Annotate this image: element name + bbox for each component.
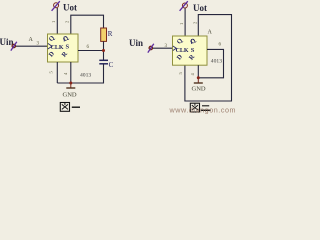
svg-text:C: C [109, 61, 114, 69]
wire: input to CLK pin 3 [153, 47, 173, 49]
wire: pin 1 (Q) up to output port [56, 8, 58, 34]
wire: cap bottom to ground rail [57, 64, 103, 83]
wire: pin 4 (R) down to rail [70, 62, 72, 83]
svg-text:A: A [29, 37, 34, 43]
svg-text:S: S [191, 47, 195, 54]
wire: pin 2 (Qbar) up and over to resistor [71, 15, 104, 34]
svg-text:Uin: Uin [129, 38, 143, 48]
ground (power port GND) [70, 83, 72, 88]
connector (input port circle+slash) [12, 44, 15, 47]
wire: pin 5 (D) down to rail [56, 62, 58, 83]
ground (power port GND) [197, 78, 199, 83]
wire: pin 6 (S) to ground rail [198, 49, 223, 77]
svg-text:GND: GND [63, 92, 77, 99]
svg-text:A: A [208, 30, 213, 36]
connector Uot output port (circle + slash) [182, 3, 187, 8]
node junction ground tap [69, 82, 72, 85]
svg-text:Uot: Uot [63, 3, 77, 13]
svg-text:GND: GND [192, 86, 206, 93]
caption 图二 (figure 2) [190, 103, 210, 112]
svg-text:1: 1 [179, 23, 184, 25]
wire: resistor to cap [103, 41, 105, 60]
resistor R [101, 28, 107, 41]
op chip U1 (4013 flip-flop box, figure 1) [48, 34, 79, 62]
svg-text:S: S [66, 44, 70, 51]
wire: pin 4 (R) down to ground [197, 65, 199, 78]
svg-text:Uin: Uin [0, 37, 14, 47]
svg-text:4013: 4013 [211, 58, 222, 64]
svg-text:CLK: CLK [176, 48, 189, 54]
svg-text:2: 2 [193, 22, 198, 24]
svg-text:CLK: CLK [51, 45, 64, 51]
clock edge symbol [173, 46, 176, 51]
clock edge symbol [48, 43, 52, 49]
connector (input port circle+slash) [149, 46, 152, 49]
svg-text:Uot: Uot [193, 3, 207, 13]
svg-text:4013: 4013 [80, 73, 91, 79]
wire: pin 6 (S) to RC node [78, 50, 104, 52]
connector Uot output port (circle + slash) [54, 3, 59, 8]
node junction R/C [102, 49, 105, 52]
svg-text:1: 1 [51, 21, 56, 23]
svg-text:R: R [108, 30, 113, 38]
wire: pin 2 (Qbar) feedback loop to pin 5 (D) [185, 15, 232, 101]
capacitor C1 plates [99, 59, 108, 61]
svg-text:2: 2 [65, 21, 70, 23]
node junction ground tap [197, 76, 200, 79]
svg-text:www.diangon.com: www.diangon.com [169, 105, 237, 114]
wire: input to CLK pin 3 [16, 45, 48, 47]
wire: pin 1 (Q) up to output port [184, 8, 186, 36]
caption 图一 (figure 1) [60, 103, 80, 112]
op chip U2 (4013 flip-flop box, figure 2) [173, 36, 208, 65]
